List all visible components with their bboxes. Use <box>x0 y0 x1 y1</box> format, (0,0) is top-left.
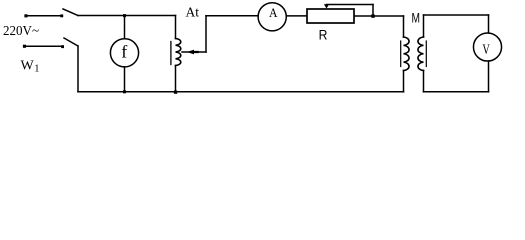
node junction rheostat output <box>371 14 374 17</box>
voltmeter V circle <box>473 33 501 61</box>
rheostat wiper line <box>327 4 374 6</box>
wire ammeter to rheostat <box>286 15 306 17</box>
wire wiper down to output <box>372 5 374 17</box>
wire wiper riser to top rail <box>205 16 207 52</box>
autotransformer upper lead <box>175 16 177 39</box>
svg-text:R: R <box>319 26 328 42</box>
node junction bottom of f branch <box>123 90 126 93</box>
rheostat wiper arrowhead <box>324 4 329 8</box>
wire secondary bottom rail <box>424 91 489 93</box>
transformer secondary upper lead <box>423 15 425 37</box>
ammeter A circle <box>258 3 286 31</box>
wire f branch upper <box>124 16 126 39</box>
autotransformer wiper arrowhead <box>187 50 199 55</box>
switch S1 blade <box>63 9 78 16</box>
switch S2 blade <box>64 38 78 46</box>
wire top rail <box>78 15 176 17</box>
wire source top to switch <box>28 15 61 17</box>
svg-text:At: At <box>186 5 200 20</box>
wire switch S2 down to bottom rail <box>77 46 79 92</box>
node junction bottom of autotransformer <box>174 91 177 94</box>
transformer primary lower lead <box>403 71 405 92</box>
svg-text:M: M <box>411 9 420 25</box>
autotransformer winding coil <box>176 39 181 66</box>
svg-text:V: V <box>482 42 490 58</box>
node junction top of f branch <box>123 14 126 17</box>
svg-text:220V~: 220V~ <box>3 24 39 39</box>
wire bottom rail <box>78 91 404 93</box>
transformer primary upper lead <box>403 16 405 37</box>
wire source bottom to switch <box>26 45 61 47</box>
switch S2 contact dot <box>61 45 64 48</box>
svg-text:A: A <box>269 5 278 20</box>
frequency meter f circle <box>110 39 138 67</box>
wire f branch lower <box>124 67 126 92</box>
wire riser to ammeter <box>206 15 258 17</box>
wire junction to transformer <box>373 15 404 17</box>
svg-text:f: f <box>121 42 127 62</box>
transformer secondary lower lead <box>423 71 425 92</box>
wire rheostat output right edge <box>355 15 372 17</box>
rheostat R body <box>307 9 354 23</box>
wire voltmeter lower <box>488 61 490 92</box>
transformer secondary winding <box>418 37 424 71</box>
source terminal top <box>24 14 27 17</box>
wire voltmeter upper <box>488 15 490 33</box>
transformer secondary winding right edge <box>425 41 427 67</box>
wire secondary top to voltmeter branch <box>424 14 489 16</box>
transformer primary winding left edge <box>400 41 402 67</box>
autotransformer winding left edge <box>170 42 172 65</box>
autotransformer wiper arrow line <box>182 51 206 53</box>
switch S1 contact dot <box>60 14 63 17</box>
source terminal bottom <box>23 45 26 48</box>
autotransformer lower lead <box>175 66 177 92</box>
transformer primary winding <box>404 37 410 71</box>
